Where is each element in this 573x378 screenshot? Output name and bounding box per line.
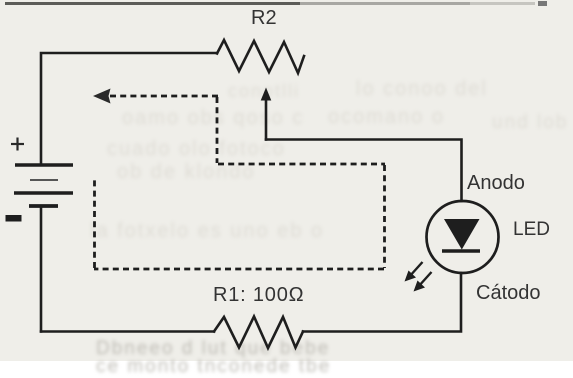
- LED D1 body: [427, 201, 499, 273]
- wire bottom left segment to R1: [41, 330, 214, 333]
- battery positive terminal marker: [11, 138, 24, 151]
- LED D1 anode triangle: [444, 219, 480, 250]
- faint show-through (decorative): [228, 81, 300, 102]
- battery negative terminal marker: [6, 215, 22, 222]
- LED light emission arrow 1: [405, 262, 423, 282]
- LED D1 cathode bar: [442, 249, 480, 252]
- dashed wire: down from top run: [216, 97, 219, 163]
- wire anode branch: LED up and left toward R2: [266, 140, 462, 202]
- current direction arrow (up, solid) at R2: [265, 99, 268, 140]
- wire bottom right segment from R1 to LED cathode branch: [303, 273, 461, 332]
- LED light emission arrow 2: [414, 272, 432, 292]
- dashed wire: left vertical up: [93, 177, 96, 268]
- battery B1 plates: [14, 165, 73, 206]
- dashed wire: bottom run leftward: [94, 268, 384, 271]
- svg-text:R1: 100Ω: R1: 100Ω: [213, 284, 304, 306]
- svg-text:Cátodo: Cátodo: [476, 282, 541, 304]
- current flow arrow (left): [93, 89, 111, 104]
- current path (dashed) with left arrow: [94, 96, 385, 269]
- resistor R1: [214, 317, 303, 349]
- svg-text:R2: R2: [251, 7, 277, 29]
- svg-text:LED: LED: [513, 219, 550, 240]
- wire top from battery to R2: [41, 53, 217, 165]
- decorative page-edge band (no label: border artifact): [5, 2, 300, 5]
- dashed wire: top run toward battery: [110, 95, 218, 98]
- dashed wire: right vertical down: [383, 165, 386, 268]
- svg-text:Anodo: Anodo: [467, 172, 525, 194]
- dashed wire: middle run rightward: [218, 163, 385, 166]
- wire left from battery negative down to bottom-left corner: [40, 206, 43, 332]
- current direction arrowhead (up) at R2: [261, 88, 272, 101]
- resistor R2: [217, 40, 304, 73]
